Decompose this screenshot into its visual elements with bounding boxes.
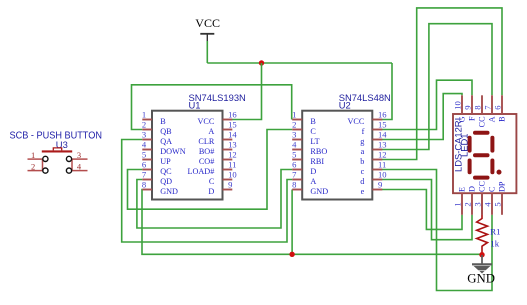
display segment E [468,159,472,175]
svg-text:1: 1 [142,109,146,119]
junction dot R1/ground [479,252,484,257]
U1 right pin numbers [228,109,237,189]
svg-text:3: 3 [77,150,81,160]
svg-text:12: 12 [228,149,237,159]
svg-text:12: 12 [378,149,387,159]
svg-text:1: 1 [453,202,463,206]
svg-text:1k: 1k [490,238,499,248]
svg-text:QD: QD [160,177,172,186]
wire VCC rail [207,62,392,64]
svg-text:U1: U1 [189,99,201,110]
svg-text:7: 7 [483,105,493,110]
wire U2 f pin15 to display F [382,80,472,129]
svg-text:2: 2 [31,162,35,172]
svg-text:10: 10 [378,169,387,179]
7-segment display LED1 body [453,114,516,193]
IC U2 SN74LS48N body [302,111,372,200]
svg-text:f: f [362,127,365,136]
svg-text:VCC: VCC [197,117,214,126]
svg-text:DP: DP [497,181,506,192]
svg-text:5: 5 [292,149,296,159]
svg-text:CLR: CLR [198,137,214,146]
svg-text:11: 11 [378,159,386,169]
svg-text:QB: QB [160,127,172,136]
svg-text:CC: CC [477,116,486,127]
wire U2 c pin11 to display C [382,170,492,291]
svg-text:a: a [361,147,365,156]
svg-text:16: 16 [228,109,237,119]
svg-text:6: 6 [292,159,297,169]
U1 right pin stubs 16-9 [223,120,233,190]
svg-text:4: 4 [292,139,297,149]
svg-text:RBI: RBI [310,157,324,166]
svg-text:A: A [487,116,496,122]
svg-text:D: D [310,167,316,176]
svg-text:1: 1 [292,109,296,119]
svg-text:15: 15 [228,119,237,129]
svg-text:4: 4 [483,202,493,207]
U1 right pin names [187,117,214,196]
svg-text:2: 2 [463,202,473,206]
svg-text:14: 14 [228,129,237,139]
display segment A [473,131,490,135]
svg-text:UP: UP [160,157,171,166]
svg-text:VCC: VCC [195,16,220,30]
svg-text:15: 15 [378,119,387,129]
push button U3 symbol [28,148,88,173]
junction dot ground rail [289,252,294,257]
svg-text:8: 8 [292,179,296,189]
svg-text:C: C [310,127,316,136]
display decimal point [497,170,502,175]
wire U2 e pin9 to display E [382,190,462,230]
svg-text:1: 1 [31,150,35,160]
svg-text:A: A [208,127,214,136]
svg-text:RBO: RBO [310,147,327,156]
svg-text:13: 13 [228,139,237,149]
svg-text:B: B [310,117,316,126]
svg-text:B: B [497,116,506,122]
resistor R1 lead from display CC pin [481,193,483,215]
ground symbol [472,255,492,274]
display segment D [473,176,490,180]
svg-text:LOAD#: LOAD# [187,167,214,176]
U2 left pin numbers [292,109,297,189]
U2 right pin stubs 16-9 [372,120,382,190]
resistor R1 [477,215,488,255]
svg-text:2: 2 [292,119,296,129]
wire U2 GND pin8 to ground rail [291,190,293,255]
svg-text:9: 9 [378,179,382,189]
svg-text:QC: QC [160,167,172,176]
svg-text:c: c [361,167,365,176]
svg-text:b: b [360,157,364,166]
svg-text:R1: R1 [490,227,500,237]
svg-text:4: 4 [77,162,82,172]
svg-text:LT: LT [310,137,319,146]
svg-text:6: 6 [142,159,147,169]
svg-text:B: B [160,117,166,126]
svg-text:CC: CC [477,181,486,192]
svg-text:14: 14 [378,129,387,139]
svg-text:2: 2 [142,119,146,129]
svg-text:VCC: VCC [347,117,364,126]
svg-text:C: C [209,177,215,186]
svg-text:4: 4 [142,139,147,149]
svg-text:F: F [467,116,476,121]
display bottom pin names E D CC C DP [457,181,506,192]
wire U1 QC pin6 to U2 C pin2 [128,130,293,210]
svg-text:5: 5 [142,149,146,159]
svg-text:7: 7 [292,169,297,179]
svg-text:11: 11 [228,159,236,169]
wire U2 d pin10 to display D [382,180,472,240]
svg-text:D: D [208,187,214,196]
wire VCC to U1 pin 16 [232,63,262,120]
U2 left pin names [310,117,328,196]
svg-text:GND: GND [160,187,178,196]
wire U2 b pin12 to display B [382,8,502,160]
display segment G [473,153,490,157]
U1 left pin numbers [142,109,147,189]
svg-text:A: A [310,177,316,186]
svg-text:CO#: CO# [199,157,214,166]
svg-text:GND: GND [467,271,495,285]
junction dot VCC/U1 [259,60,264,65]
IC U1 SN74LS193N body [152,111,223,200]
push button pin numbers [31,150,82,171]
wire U2 a pin13 to display A [382,24,492,150]
display top pin names G F CC A B [457,116,506,127]
svg-text:QA: QA [160,137,172,146]
display bottom pin stubs 1 2 3 4 5 [462,193,502,215]
wire U1 QD pin7 to U2 D pin6 [137,170,292,229]
wire ground rail U1 pin8 to R1 [142,190,482,255]
U1 left pin stubs 1-8 [142,120,152,190]
svg-text:5: 5 [493,202,503,206]
svg-text:16: 16 [378,109,387,119]
svg-text:E: E [457,187,466,192]
wire U2 g pin14 to display G [382,94,462,140]
U1 left pin names [160,117,186,196]
svg-text:9: 9 [228,179,232,189]
svg-text:10: 10 [453,101,463,110]
power symbol VCC [195,16,220,41]
svg-text:g: g [360,137,364,146]
svg-text:C: C [487,186,496,192]
svg-text:d: d [360,177,364,186]
U2 right pin names [347,117,364,196]
display top pin numbers [453,101,503,110]
svg-text:8: 8 [473,106,483,110]
svg-text:6: 6 [493,105,503,110]
wire VCC symbol to rail [206,41,208,63]
wire U1 QA pin3 to U2 A pin7 [122,140,293,243]
wire VCC to U2 pin 16 [382,63,392,120]
svg-text:3: 3 [292,129,296,139]
svg-text:7: 7 [142,169,147,179]
display segment F [468,136,472,153]
svg-text:GND: GND [310,187,328,196]
display top pin stubs 10 9 8 7 6 [462,95,502,114]
svg-text:DOWN: DOWN [160,147,186,156]
U2 left pin stubs 1-8 [292,120,302,190]
svg-text:e: e [361,187,365,196]
display segment C [490,159,494,175]
svg-text:D: D [467,186,476,192]
svg-text:8: 8 [142,179,146,189]
svg-text:U2: U2 [339,99,351,110]
U2 right pin numbers [378,109,387,189]
svg-text:13: 13 [378,139,387,149]
svg-text:10: 10 [228,169,237,179]
svg-text:9: 9 [463,106,473,110]
svg-text:BO#: BO# [199,147,214,156]
svg-text:3: 3 [142,129,146,139]
display segment B [490,136,494,153]
display bottom pin numbers [453,202,503,207]
wire U1 QB pin2 to U2 B pin1 [132,85,292,130]
